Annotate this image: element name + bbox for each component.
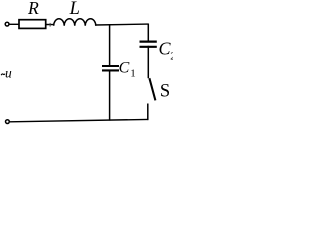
wire [46,24,55,26]
wire [9,23,19,25]
svg-text:1: 1 [130,68,136,80]
svg-text:S: S [160,82,170,102]
svg-text:R: R [27,0,39,18]
wire (C1 branch lower lead) [109,71,111,120]
wire (C1 branch upper lead) [109,24,111,65]
wire (switch bottom stub) [147,104,149,121]
wire (bottom return) [10,119,149,121]
resistor R [19,0,46,28]
inductor L [54,0,96,26]
junction [49,23,51,27]
wire (top, to right corner) [95,23,148,26]
switch S [149,78,170,101]
terminal (top-left input) [5,22,9,26]
wire (C2 branch upper lead) [147,24,149,42]
svg-text:C: C [119,59,130,76]
svg-text:2: 2 [170,51,173,62]
wire (between C2 and switch blade) [147,46,149,78]
svg-text:u: u [5,66,12,81]
capacitor C1 [102,59,136,79]
capacitor C2 [140,39,176,63]
terminal (bottom-left input) [6,120,10,124]
svg-text:L: L [69,0,80,19]
node label ~u (source voltage) [1,66,12,81]
